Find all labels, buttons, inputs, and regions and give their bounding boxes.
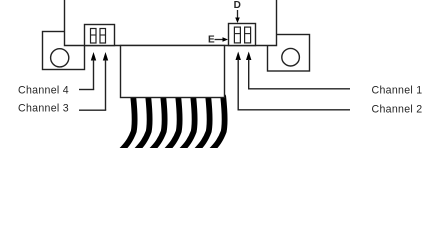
svg-text:Channel 2: Channel 2: [372, 104, 423, 116]
cable connector / strain relief: [121, 46, 225, 98]
right DIP switch block: [229, 24, 256, 46]
svg-text:D: D: [234, 0, 241, 11]
channel 2 leader wire: [238, 109, 351, 111]
right DIP switch rocker 1: [234, 27, 240, 43]
svg-text:Channel 4: Channel 4: [18, 85, 69, 97]
ribbon wire 1: [121, 97, 134, 151]
channel 4 leader wire: [79, 89, 94, 91]
svg-text:Channel 1: Channel 1: [372, 85, 423, 97]
ribbon wire 2: [136, 97, 149, 151]
label Channel 2: [372, 104, 423, 116]
right ear hole: [282, 48, 300, 66]
arrow from D to right DIP switch: [235, 10, 240, 23]
label Channel 3: [18, 103, 69, 115]
arrow from E to right DIP switch: [215, 37, 229, 42]
left DIP switch block: [85, 25, 115, 46]
left DIP switch rocker 2: [100, 29, 106, 44]
left mounting ear: [43, 32, 85, 70]
ribbon wire 6: [196, 97, 209, 151]
label Channel 1: [372, 85, 423, 97]
label D: [234, 0, 241, 11]
svg-text:Channel 3: Channel 3: [18, 103, 69, 115]
left ear hole: [51, 49, 69, 67]
svg-text:E: E: [208, 35, 215, 46]
pod body (top edge cut off above image): [65, 0, 277, 46]
channel 1 leader wire: [248, 88, 350, 90]
channel 2 arrow: [236, 52, 241, 110]
channel 3 leader wire: [79, 109, 106, 111]
ribbon cable: [121, 97, 224, 151]
channel 1 arrow: [246, 52, 251, 89]
channel 3 arrow: [103, 52, 108, 110]
channel 4 arrow: [91, 52, 96, 90]
label E: [208, 35, 215, 46]
right mounting ear: [268, 35, 310, 72]
ribbon wire 4: [166, 97, 179, 151]
ribbon wire 5: [181, 97, 194, 151]
ribbon wire 3: [151, 97, 164, 151]
label Channel 4: [18, 85, 69, 97]
right DIP switch rocker 2: [245, 27, 251, 43]
ribbon wire 7: [211, 97, 224, 151]
left DIP switch rocker 1: [91, 29, 97, 44]
